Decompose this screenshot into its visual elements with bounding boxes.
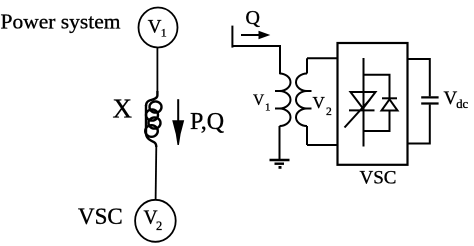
svg-text:Power system: Power system [1,10,121,34]
svg-text:1: 1 [265,101,271,113]
svg-text:V: V [253,92,265,109]
ground [270,126,290,167]
svg-text:2: 2 [156,219,162,233]
wire V1 to reactor [156,48,158,94]
thyristor (GTO) symbol [345,92,376,128]
svg-text:V: V [148,16,162,37]
terminal bar [231,26,233,48]
wire secondary bottom to VSC box [307,144,338,146]
wire capacitor to box (bottom) [408,105,430,144]
VSC box [338,43,408,165]
label V2 (right figure) [313,93,333,118]
capacitor Vdc [421,97,438,103]
svg-text:VSC: VSC [78,204,123,229]
wire box to capacitor (top) [408,59,430,96]
svg-text:V: V [313,93,326,112]
svg-text:Q: Q [246,7,261,29]
label Vdc [444,88,469,111]
antiparallel diode branch [364,75,398,131]
wire secondary top to VSC box [307,57,338,59]
svg-text:1: 1 [161,25,167,39]
svg-text:P,Q: P,Q [190,109,224,135]
converter V2 (circle) [135,200,176,242]
wire reactor to V2 [155,146,158,200]
valve leg (vertical line) [363,58,365,147]
arrow P,Q [172,99,184,145]
transformer primary winding [275,74,291,127]
svg-text:2: 2 [326,106,332,118]
svg-text:VSC: VSC [360,168,397,189]
source V1 (circle) [139,8,178,48]
wire terminal to transformer primary [232,46,280,74]
svg-text:X: X [113,94,133,124]
label V1 (right figure) [253,92,271,113]
transformer secondary winding [296,58,312,145]
arrow Q [241,31,270,39]
reactor X (coil of loops) [145,91,161,147]
svg-text:dc: dc [456,97,468,111]
